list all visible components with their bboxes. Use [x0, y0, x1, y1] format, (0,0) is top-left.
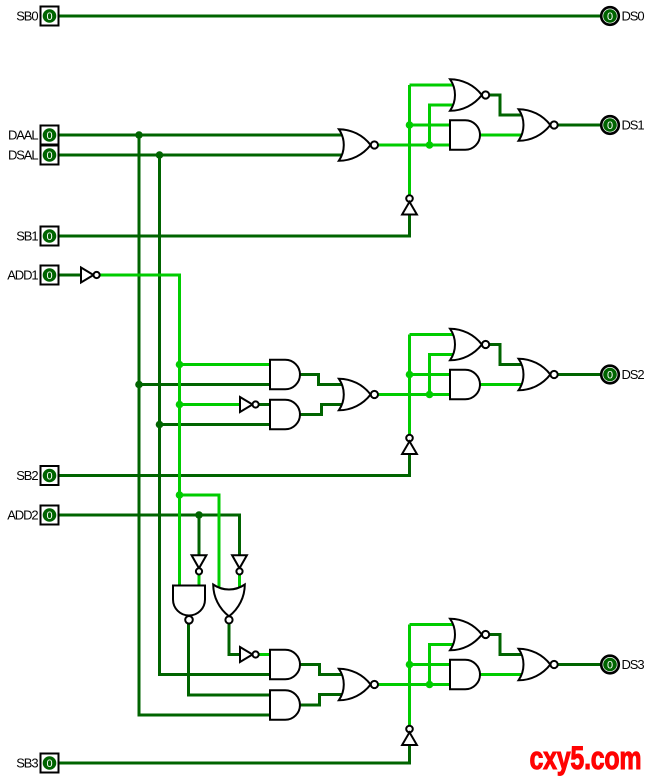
- junction V2 (DS3 cluster): [426, 681, 434, 689]
- wire inv-ADD1 branch to NOR U9 input: [180, 495, 220, 590]
- AND gate A6 (DS3 lower-left): [270, 690, 300, 720]
- input pin ADD1: [41, 266, 59, 285]
- svg-text:0: 0: [46, 11, 52, 23]
- junction V2 (DS2 cluster): [426, 391, 434, 399]
- svg-text:DS1: DS1: [622, 118, 645, 133]
- svg-text:cxy5.com: cxy5.com: [530, 741, 642, 777]
- NOR gate top (DS3 cluster): [450, 619, 482, 651]
- wire AND A2 output to NOR G2: [300, 375, 344, 385]
- wire ADD2 row: [60, 515, 240, 556]
- wire top NOR output jog (DS3 cluster): [489, 635, 524, 655]
- wire AND A3 output to NOR G2: [300, 405, 344, 415]
- wire top NOR output jog (DS2 cluster): [489, 345, 524, 365]
- svg-text:ADD2: ADD2: [7, 508, 38, 523]
- wire AND output (DS3 cluster): [480, 673, 524, 676]
- wire left NOR output (DS3 cluster): [378, 683, 451, 686]
- wire output NOR to pin DS1: [557, 124, 601, 127]
- wire NAND U8 output to AND A6: [189, 624, 272, 695]
- input pin SB1: [41, 227, 59, 246]
- wire inv-ADD1 branch to AND A2 input: [180, 363, 272, 366]
- wire branch to top NOR input1 (DS2 cluster): [410, 333, 457, 336]
- wire branch to top NOR input2 (DS1 cluster): [430, 105, 457, 145]
- wire SB inverter output vertical (DS1 cluster): [408, 85, 411, 195]
- wire ADD2 branch to inverter U6: [198, 515, 201, 556]
- wire DSAL branch to AND A3 input: [160, 423, 272, 426]
- input pin DAAL: [41, 126, 59, 145]
- input pin DSAL: [41, 146, 59, 165]
- input pin ADD2: [41, 506, 59, 525]
- wire inverter U5 output stub: [198, 575, 201, 587]
- wire DAAL vertical branch: [139, 135, 271, 715]
- wire left NOR output (DS2 cluster): [378, 393, 451, 396]
- svg-text:0: 0: [46, 758, 52, 770]
- wire inverter U6 output stub: [238, 575, 241, 591]
- junction DAAL branch y384: [135, 381, 143, 389]
- svg-text:DS0: DS0: [622, 9, 645, 24]
- wire DAAL row: [60, 134, 345, 137]
- input pin SB3: [41, 754, 59, 773]
- NOR gate top (DS1 cluster): [450, 79, 482, 111]
- svg-text:0: 0: [46, 510, 52, 522]
- svg-text:0: 0: [46, 270, 52, 282]
- wire AND A5 output to NOR G3: [300, 665, 344, 675]
- inverter U5 (ADD2 left): [192, 555, 207, 568]
- junction V1 (DS2 cluster): [406, 371, 414, 379]
- wire top NOR output jog (DS1 cluster): [489, 95, 524, 115]
- svg-text:0: 0: [46, 231, 52, 243]
- output pin DS2: [601, 366, 619, 384]
- svg-text:DS3: DS3: [622, 657, 645, 672]
- inverter U2 (SB, DS1 cluster): [406, 195, 413, 202]
- svg-text:DSAL: DSAL: [8, 148, 38, 163]
- svg-text:0: 0: [607, 659, 613, 671]
- junction V1 (DS3 cluster): [406, 661, 414, 669]
- AND gate right (DS1 cluster): [450, 120, 480, 150]
- wire inverter U10 output to AND A5: [258, 653, 271, 656]
- inverter U10 (DS3): [240, 647, 253, 662]
- wire inv-ADD1 branch to inverter U7 input: [180, 403, 241, 406]
- NOR gate output (DS3 cluster): [519, 649, 551, 681]
- svg-text:SB1: SB1: [16, 229, 38, 244]
- wire DAAL branch to AND A2 input: [139, 383, 271, 386]
- wire branch to top NOR input1 (DS3 cluster): [410, 623, 457, 626]
- wire AND output (DS1 cluster): [480, 134, 524, 137]
- wire SB0 to DS0: [60, 15, 602, 18]
- inverter U1 (ADD1): [81, 268, 94, 283]
- NAND gate U8 (vertical): [173, 586, 205, 616]
- inverter U11 (SB, DS2 cluster): [406, 435, 413, 442]
- junction DAAL at x139: [135, 131, 143, 139]
- wire DSAL vertical branch: [160, 155, 272, 675]
- wire branch to top NOR input2 (DS3 cluster): [430, 645, 457, 685]
- junction ADD2 at x199: [195, 511, 203, 519]
- NOR gate G3 (DS3 left): [339, 669, 371, 701]
- wire inverter U1 output net (inv ADD1): [99, 275, 180, 587]
- svg-text:DAAL: DAAL: [8, 128, 38, 143]
- wire DSAL row: [60, 154, 345, 157]
- input pin SB2: [41, 466, 59, 485]
- NOR gate G1 (DAAL,DSAL): [339, 129, 371, 161]
- wire ADD1 stub: [60, 274, 82, 277]
- wire AND A6 output to NOR G3: [300, 695, 344, 706]
- svg-text:0: 0: [607, 120, 613, 132]
- svg-text:0: 0: [607, 11, 613, 23]
- wire inverter U7 output to AND A3: [258, 403, 271, 406]
- wire branch to top NOR input1 (DS1 cluster): [410, 84, 457, 87]
- junction inv-ADD1 y404: [176, 401, 184, 409]
- NOR gate G2 (DS2 left): [339, 379, 371, 411]
- wire branch to AND input1 (DS3 cluster): [410, 663, 452, 666]
- NOR gate output (DS1 cluster): [519, 109, 551, 141]
- wire SB1 row: [60, 215, 410, 236]
- wire branch to top NOR input2 (DS2 cluster): [430, 355, 457, 395]
- wire SB inverter output vertical (DS2 cluster): [408, 335, 411, 435]
- junction V1 (DS1 cluster): [406, 121, 414, 129]
- AND gate right (DS2 cluster): [450, 370, 480, 400]
- wire output NOR to pin DS3: [557, 663, 601, 666]
- AND gate A2 (DS2 upper-left): [270, 360, 300, 390]
- svg-text:0: 0: [607, 369, 613, 381]
- wire left NOR output (DS1 cluster): [378, 144, 451, 147]
- wire NOR U9 output to inverter U10: [229, 624, 241, 655]
- input pin SB0: [41, 7, 59, 26]
- wire branch to AND input1 (DS2 cluster): [410, 373, 452, 376]
- svg-text:SB3: SB3: [16, 756, 38, 771]
- wire output NOR to pin DS2: [557, 373, 601, 376]
- inverter U6 (ADD2 right): [232, 555, 247, 568]
- AND gate right (DS3 cluster): [450, 660, 480, 690]
- svg-text:SB2: SB2: [16, 468, 38, 483]
- AND gate A5 (DS3 upper-left): [270, 650, 300, 680]
- inverter U12 (SB, DS3 cluster): [406, 726, 413, 733]
- junction inv-ADD1 y495: [176, 491, 184, 499]
- junction DSAL branch y424: [156, 421, 164, 429]
- wire AND output (DS2 cluster): [480, 383, 524, 386]
- output pin DS1: [601, 116, 619, 134]
- svg-text:SB0: SB0: [16, 9, 38, 24]
- svg-text:0: 0: [46, 130, 52, 142]
- output pin DS3: [601, 656, 619, 674]
- junction V2 (DS1 cluster): [426, 141, 434, 149]
- svg-text:0: 0: [46, 150, 52, 162]
- NOR gate U9 (vertical): [213, 585, 245, 617]
- svg-text:0: 0: [46, 470, 52, 482]
- AND gate A3 (DS2 lower-left): [270, 400, 300, 430]
- svg-text:DS2: DS2: [622, 367, 645, 382]
- wire SB3 row: [60, 746, 410, 764]
- junction inv-ADD1 y364: [176, 361, 184, 369]
- wire SB inverter output vertical (DS3 cluster): [408, 625, 411, 726]
- inverter U7 (DS2): [240, 397, 253, 412]
- svg-text:ADD1: ADD1: [7, 268, 38, 283]
- wire branch to AND input1 (DS1 cluster): [410, 124, 452, 127]
- output pin DS0: [601, 7, 619, 25]
- junction DSAL at x159: [156, 151, 164, 159]
- wire SB2 row: [60, 455, 410, 476]
- NOR gate output (DS2 cluster): [519, 359, 551, 391]
- NOR gate top (DS2 cluster): [450, 329, 482, 361]
